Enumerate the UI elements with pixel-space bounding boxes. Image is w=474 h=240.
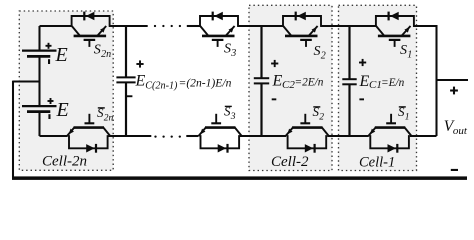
svg-text:=E/n: =E/n — [381, 77, 405, 89]
transistor S2_bar — [286, 114, 329, 136]
transistor S2 — [283, 26, 317, 47]
svg-text:Cell-1: Cell-1 — [359, 154, 395, 170]
svg-text:S: S — [314, 44, 321, 59]
transistor S1_bar — [368, 114, 411, 136]
svg-text:E: E — [56, 99, 69, 121]
wire bottom bus S1bar to output corner — [410, 135, 437, 137]
label + (C(2n-1)) — [136, 60, 143, 67]
diode DS3 — [200, 12, 238, 27]
transistor S2n — [72, 26, 106, 47]
diode DS2 — [283, 12, 321, 27]
svg-text:1: 1 — [407, 50, 412, 61]
label Cell-2n — [42, 153, 87, 169]
transistor S3 — [200, 26, 234, 47]
label E_C1=E/n — [359, 73, 405, 91]
svg-text:=2E/n: =2E/n — [295, 77, 324, 89]
label E_C2=2E/n — [272, 73, 324, 92]
wire top bus S2 to S1 — [321, 25, 377, 27]
wire bottom bus S2bar to S1bar — [327, 135, 369, 137]
wire top bus S3 to S2 — [238, 25, 284, 27]
diode DS2n — [72, 12, 110, 27]
label + (lower battery) — [48, 98, 54, 104]
wire battery top lead — [38, 26, 40, 52]
label - (C2) — [272, 98, 277, 100]
svg-text:3: 3 — [230, 112, 236, 122]
wire output plus stub — [437, 79, 469, 81]
label S2 — [314, 44, 326, 61]
diode DS2_bar — [288, 135, 327, 153]
wire bottom bus S3bar to S2bar — [240, 135, 287, 137]
cell box Cell-2 — [249, 5, 332, 170]
wire top bus gap to S3 — [187, 25, 201, 27]
wire bottom bus S2n to gap — [109, 135, 152, 137]
wire battery midpoint tap — [13, 80, 40, 82]
label - (Vout) — [451, 169, 458, 171]
label S3 — [224, 42, 236, 59]
svg-text:S: S — [94, 43, 101, 58]
svg-text:=(2n-1)E/n: =(2n-1)E/n — [179, 76, 232, 89]
svg-text:E: E — [135, 73, 146, 90]
node bottom ellipsis dots — [154, 135, 181, 137]
transistor S3_bar — [199, 114, 242, 136]
label E_C(2n-1)=(2n-1)E/n — [135, 73, 232, 92]
svg-text:2: 2 — [319, 112, 324, 122]
svg-text:S: S — [224, 42, 231, 57]
wire between batteries — [38, 56, 40, 106]
wire bottom return rail (thick) — [12, 176, 467, 180]
label - tick (lower battery) — [48, 114, 50, 119]
node top ellipsis dots — [154, 25, 181, 27]
diode DS2n_bar — [69, 135, 108, 153]
wire top bus S1 to output corner — [413, 26, 437, 136]
diode DS1 — [376, 12, 414, 27]
label S2n bar — [97, 105, 114, 123]
svg-text:S: S — [400, 43, 407, 58]
label S2n — [94, 43, 111, 60]
capacitor C(2n-1) — [116, 26, 135, 136]
svg-text:C2: C2 — [282, 79, 295, 91]
svg-text:1: 1 — [405, 112, 410, 122]
wire battery bottom lead — [38, 112, 40, 136]
label + (Vout) — [450, 87, 458, 95]
label - (C1) — [359, 98, 364, 100]
diode DS3_bar — [201, 135, 240, 153]
svg-text:2n: 2n — [104, 113, 114, 123]
label S1 bar — [398, 104, 410, 122]
label - tick (upper battery) — [48, 59, 50, 64]
cell box Cell-2n — [19, 11, 113, 170]
label + (C1) — [359, 59, 366, 66]
label Cell-1 — [359, 154, 395, 170]
svg-text:out: out — [453, 125, 468, 137]
label - (C(2n-1)) — [126, 95, 132, 97]
svg-text:2: 2 — [321, 50, 326, 61]
label E (lower battery) — [56, 99, 69, 121]
label Vout — [444, 118, 468, 137]
svg-text:3: 3 — [230, 48, 236, 59]
wire top bus S2n to gap — [109, 25, 148, 27]
svg-text:2n: 2n — [101, 49, 111, 60]
label S3 bar — [224, 104, 236, 122]
svg-text:Cell-2: Cell-2 — [271, 154, 309, 170]
label S2 bar — [313, 104, 325, 122]
label + (upper battery) — [46, 43, 52, 49]
diode DS1_bar — [370, 135, 409, 153]
label + (C2) — [271, 60, 278, 67]
capacitor C1 — [342, 26, 356, 136]
label E (upper battery) — [55, 44, 68, 66]
capacitor C2 — [254, 26, 269, 136]
wire bottom bus battery to S2n — [40, 135, 68, 137]
battery E (lower) — [22, 106, 57, 112]
svg-text:Cell-2n: Cell-2n — [42, 153, 87, 169]
label S1 — [400, 43, 412, 60]
label Cell-2 — [271, 154, 309, 170]
wire top bus battery to S2n — [40, 25, 73, 27]
transistor S2n_bar — [67, 114, 110, 136]
svg-text:C1: C1 — [369, 79, 382, 91]
transistor S1 — [376, 26, 410, 47]
wire left return vertical — [12, 81, 14, 178]
wire bottom bus gap to S3bar — [186, 135, 198, 137]
battery E (upper) — [22, 51, 57, 57]
svg-text:E: E — [55, 44, 68, 66]
svg-text:C(2n-1): C(2n-1) — [145, 80, 178, 91]
svg-text:E: E — [272, 73, 283, 90]
svg-text:E: E — [359, 73, 370, 90]
cell box Cell-1 — [339, 5, 417, 170]
